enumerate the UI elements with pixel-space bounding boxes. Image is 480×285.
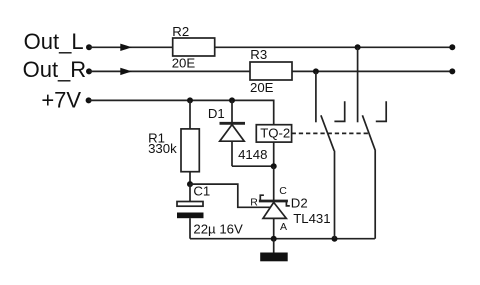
node Out_L terminal dot	[86, 44, 92, 50]
wire R2 to right end	[215, 46, 453, 48]
TL431 D2 triangle	[263, 202, 286, 218]
svg-text:R2: R2	[172, 24, 189, 39]
capacitor C1 negative plate	[177, 213, 204, 219]
junction dot +7V / D1	[229, 97, 235, 103]
svg-text:+7V: +7V	[41, 88, 81, 113]
svg-text:Out_L: Out_L	[24, 29, 84, 54]
junction dot R1/C1/ref	[187, 181, 193, 187]
relay contact 1 return wire	[334, 151, 336, 239]
wire +7V to R1	[189, 100, 191, 128]
wire node to C1 top plate	[189, 184, 191, 201]
resistor R1	[181, 129, 199, 172]
wire ref node to TL431 R pin	[190, 184, 271, 207]
svg-text:C: C	[279, 185, 287, 197]
wire +7V rail	[89, 100, 274, 124]
node +7V terminal dot	[86, 97, 92, 103]
wire ground stub	[273, 239, 275, 253]
wire +7V to D1 cathode	[231, 100, 233, 122]
wire R1 to C1 node	[189, 172, 191, 184]
svg-text:C1: C1	[193, 184, 210, 199]
ground rail wire	[190, 238, 375, 240]
svg-text:R3: R3	[250, 47, 267, 62]
wire D1 anode down	[231, 141, 233, 166]
svg-text:TL431: TL431	[293, 211, 330, 226]
relay contact 2 fixed contact	[376, 101, 386, 121]
svg-text:22µ 16V: 22µ 16V	[193, 222, 243, 237]
svg-text:Out_R: Out_R	[23, 57, 87, 82]
dashed mechanical link TQ-2 to contacts	[292, 132, 370, 134]
terminal dot right end of Out_R	[449, 68, 455, 74]
arrow on Out_R wire	[120, 68, 132, 75]
svg-text:20E: 20E	[250, 80, 274, 95]
wire D1 anode to coil node	[232, 165, 274, 167]
relay contact 1 arm	[321, 115, 334, 151]
TL431 D2 cathode bar	[259, 200, 288, 203]
svg-text:20E: 20E	[172, 56, 196, 71]
svg-text:R: R	[250, 197, 258, 209]
wire node to TL431 cathode	[273, 166, 275, 200]
wire Out_R to R3	[89, 70, 250, 72]
svg-text:D2: D2	[291, 195, 308, 210]
arrow on Out_L wire	[120, 44, 132, 51]
relay contact 2 pole wire	[357, 47, 359, 122]
terminal dot right end of Out_L	[449, 44, 455, 50]
resistor R3	[250, 62, 292, 80]
TL431 anode wire down	[273, 218, 275, 238]
junction dot TL431 anode / ground	[271, 236, 277, 242]
relay contact 2 arm	[362, 115, 375, 151]
capacitor C1 positive plate	[177, 202, 203, 207]
diode D1 cathode bar	[220, 122, 246, 125]
svg-text:A: A	[280, 221, 287, 233]
junction dot Out_L / contact 2	[355, 44, 361, 50]
relay contact 1 fixed contact	[334, 101, 344, 121]
svg-text:TQ-2: TQ-2	[260, 125, 290, 140]
junction dot Out_R / contact 1	[313, 68, 319, 74]
wire R3 to right end	[292, 70, 452, 72]
svg-text:4148: 4148	[238, 147, 267, 162]
junction dot contact 1 return	[332, 236, 338, 242]
relay contact 1 pole wire	[315, 71, 317, 122]
relay coil TQ-2 box	[256, 125, 291, 142]
TL431 D2 cathode bar left hook	[260, 195, 264, 200]
ground symbol	[260, 253, 288, 262]
junction dot coil/D1/TL431	[271, 163, 277, 169]
relay contact 2 return wire	[374, 151, 376, 239]
diode D1 triangle	[220, 125, 245, 142]
svg-text:330k: 330k	[148, 141, 177, 156]
TL431 D2 cathode bar right hook	[286, 202, 289, 206]
svg-text:D1: D1	[208, 106, 225, 121]
wire Out_L to R2	[89, 46, 173, 48]
resistor R2	[173, 38, 215, 56]
node Out_R terminal dot	[86, 68, 92, 74]
wire C1 to ground rail	[189, 218, 191, 239]
wire TQ-2 bottom to node	[273, 142, 275, 166]
junction dot +7V / R1	[187, 97, 193, 103]
